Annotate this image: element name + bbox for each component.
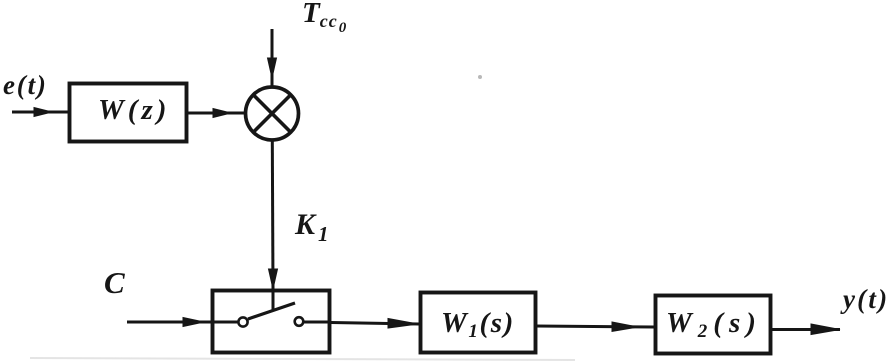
switch right contact (295, 317, 304, 326)
label Tcc0 (302, 0, 347, 36)
label y(t) (840, 284, 889, 314)
wire: inside switch, left segment (211, 321, 238, 324)
scan shadow along bottom (30, 358, 575, 360)
svg-text:K1: K1 (294, 208, 329, 246)
wire: multiplier down to switch, arrowhead at box (269, 140, 278, 289)
wire: W1(s) to W2(s) with arrowhead (536, 322, 654, 331)
wire: actuator line inside box (272, 290, 275, 311)
label e(t) (3, 70, 48, 100)
wire: W(z) to multiplier (188, 109, 245, 118)
svg-text:W2(s): W2(s) (666, 307, 762, 342)
multiplier (circle with X) (246, 87, 299, 140)
block W(z) (70, 84, 187, 142)
label K1 (294, 208, 329, 246)
wire: right contact to box edge (304, 321, 332, 324)
switch box K1 (213, 291, 330, 353)
svg-text:y(t): y(t) (840, 284, 889, 314)
block W1(s) (421, 293, 536, 353)
svg-text:e(t): e(t) (3, 70, 48, 100)
svg-text:C: C (104, 265, 125, 300)
svg-text:Tcc0: Tcc0 (302, 0, 347, 36)
wire: output arrow y(t) (771, 324, 840, 335)
svg-text:W(z): W(z) (98, 94, 170, 126)
switch left contact (238, 317, 247, 326)
wire: Tcc0 arrow down into multiplier (268, 29, 277, 86)
wire: C arrow into switch box (127, 318, 211, 327)
block W2(s) (656, 296, 771, 354)
switch lever (open) (248, 303, 295, 319)
wire: switch to W1(s) with arrowhead (331, 319, 419, 329)
scan speck artifact (478, 75, 482, 79)
label C (104, 265, 125, 300)
wire: input arrow into W(z) (12, 108, 68, 117)
